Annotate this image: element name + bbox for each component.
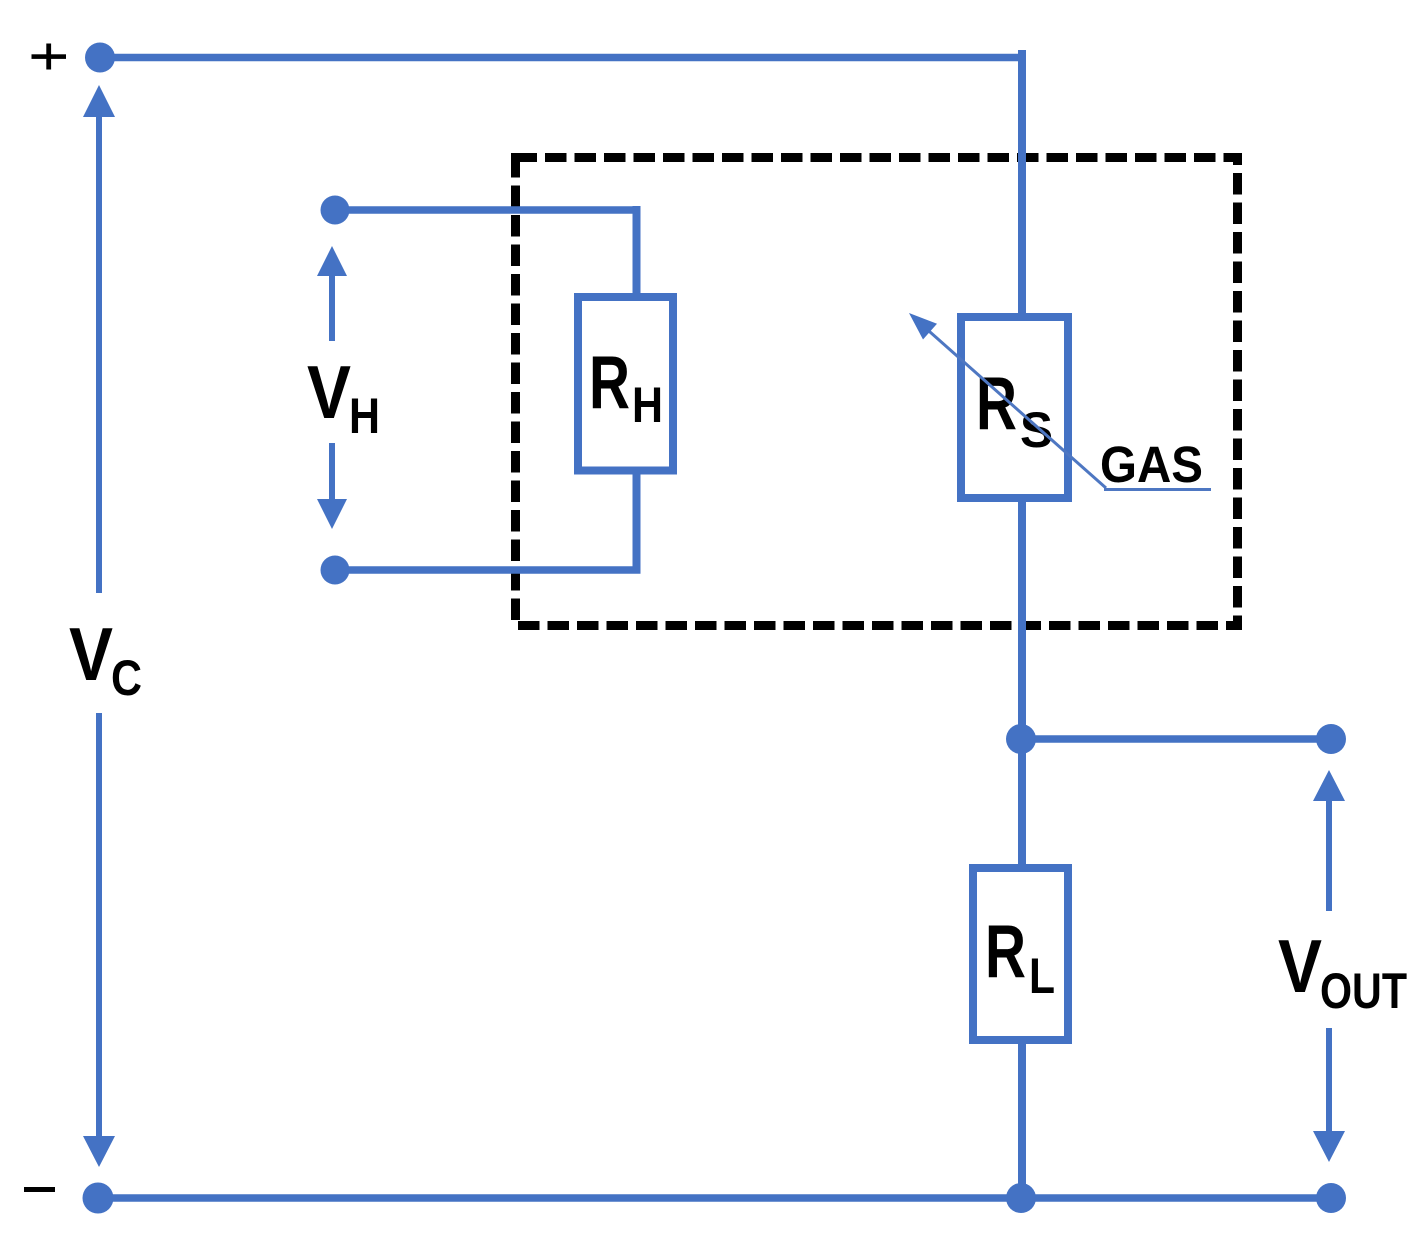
sensor enclosure (dashed box) bbox=[516, 158, 1238, 626]
node: heater terminal (top) bbox=[321, 196, 350, 225]
svg-text:H: H bbox=[632, 377, 663, 433]
wire: RH bottom lead down bbox=[633, 470, 641, 570]
svg-text:L: L bbox=[1029, 948, 1055, 1004]
svg-text:V: V bbox=[307, 350, 351, 434]
svg-text:H: H bbox=[349, 388, 380, 444]
wire: heater top lead bbox=[335, 206, 641, 214]
voltage arrow VC (upper half, pointing up) bbox=[83, 85, 115, 593]
wire: heater bottom lead bbox=[335, 566, 641, 574]
wire: RS bottom down through junction to RL bbox=[1018, 498, 1026, 868]
wire: top rail from + node to Rs branch bbox=[100, 54, 1022, 62]
wire: bottom rail bbox=[98, 1194, 1331, 1202]
voltage arrow VH (upper half, pointing up) bbox=[317, 246, 347, 341]
svg-text:OUT: OUT bbox=[1320, 963, 1407, 1019]
node: junction RS/RL/VOUT bbox=[1006, 724, 1036, 754]
resistor RH (heater) bbox=[578, 297, 673, 471]
svg-text:V: V bbox=[69, 612, 113, 696]
resistor RL (load) bbox=[973, 868, 1068, 1040]
svg-text:R: R bbox=[985, 909, 1026, 993]
node: + supply terminal bbox=[85, 43, 115, 73]
wire: RL bottom to bottom rail bbox=[1018, 1040, 1026, 1198]
svg-text:GAS: GAS bbox=[1100, 436, 1203, 493]
wire: junction to VOUT terminal bbox=[1021, 735, 1331, 743]
node: − supply terminal bbox=[83, 1183, 114, 1214]
svg-text:S: S bbox=[1020, 402, 1053, 458]
resistor RS (sensing element) bbox=[961, 317, 1068, 498]
svg-text:C: C bbox=[111, 650, 142, 706]
variable-resistor arrow (GAS) bbox=[909, 313, 1211, 490]
wire: top rail down to RS bbox=[1018, 50, 1026, 317]
voltage arrow VOUT (lower half, pointing down) bbox=[1313, 1028, 1345, 1162]
node: VOUT top terminal bbox=[1316, 724, 1346, 754]
svg-text:V: V bbox=[1278, 924, 1322, 1008]
node: VOUT bottom terminal bbox=[1316, 1183, 1346, 1213]
voltage arrow VH (lower half, pointing down) bbox=[317, 443, 347, 529]
node: bottom junction bbox=[1006, 1183, 1036, 1213]
label: + polarity bbox=[32, 44, 67, 70]
node: heater terminal (bottom) bbox=[321, 556, 350, 585]
voltage arrow VOUT (upper half, pointing up) bbox=[1313, 770, 1345, 911]
wire: down to RH bbox=[633, 206, 641, 297]
label − polarity bbox=[24, 1187, 55, 1192]
voltage arrow VC (lower half, pointing down) bbox=[83, 713, 115, 1167]
svg-text:R: R bbox=[589, 340, 630, 424]
